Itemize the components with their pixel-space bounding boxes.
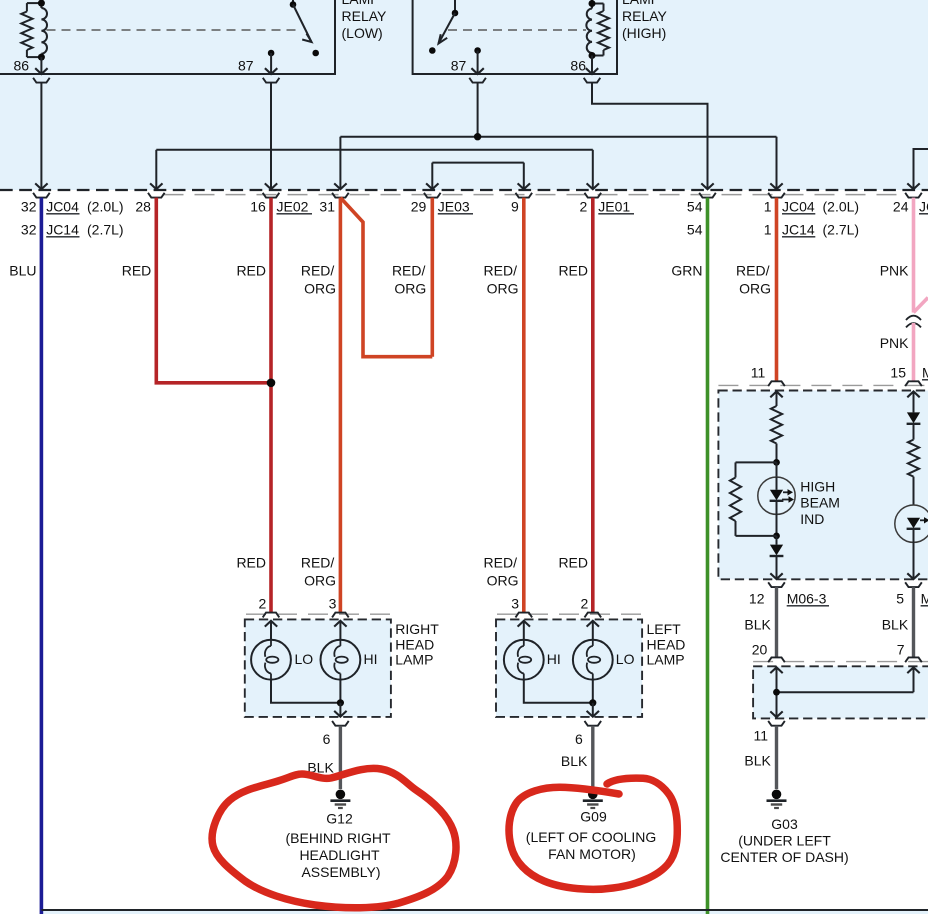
wire jumper bus 29 to 9: [432, 162, 524, 164]
right headlamp pin 6 cup: [332, 721, 349, 726]
wire LO bulb to common: [271, 680, 340, 703]
svg-text:9: 9: [511, 199, 519, 215]
right headlamp pin 3 cup: [332, 613, 349, 618]
wire bus (low beam feed): [156, 149, 593, 151]
left headlamp box: [496, 619, 642, 717]
svg-text:24: 24: [893, 199, 909, 215]
svg-text:ORG: ORG: [304, 573, 336, 589]
svg-text:RED: RED: [236, 555, 266, 571]
ground G09: [588, 790, 598, 800]
wire HIGH relay 86 to connector 54: [592, 83, 708, 190]
svg-text:ORG: ORG: [739, 281, 771, 297]
high beam indicator lamp circle: [758, 477, 795, 514]
LOW relay contact (arm side): [312, 50, 319, 57]
LOW relay coil bottom junction: [38, 54, 45, 61]
svg-text:1: 1: [764, 199, 772, 215]
svg-text:86: 86: [570, 57, 586, 73]
engine compartment relay module area (light blue band): [0, 0, 928, 190]
left headlamp pin 2 cup: [585, 613, 602, 618]
LOW relay coil top junction: [38, 0, 45, 7]
svg-text:32: 32: [21, 199, 37, 215]
high beam indicator LED: [776, 477, 778, 490]
svg-text:BLK: BLK: [744, 617, 771, 633]
connector cup pin 9: [516, 193, 533, 198]
junction high-beam bus: [474, 133, 481, 140]
wire resistor B to indicator B: [913, 477, 915, 505]
joint connector pin 20 cup: [768, 657, 785, 662]
cluster pin 11 entry arrow: [770, 392, 782, 398]
svg-text:(2.7L): (2.7L): [87, 222, 124, 238]
cluster connector strip: [718, 384, 928, 386]
right headlamp connector strip: [246, 613, 390, 615]
connector cup pin 16: [263, 193, 280, 198]
junction LED top: [773, 459, 780, 466]
svg-text:JC14: JC14: [46, 222, 79, 238]
wire BLK joint connector to ground: [775, 726, 778, 789]
svg-text:BLK: BLK: [744, 753, 771, 769]
HIGH relay box outline: [413, 0, 617, 74]
HIGH relay switch pivot: [452, 10, 459, 17]
svg-text:11: 11: [751, 365, 766, 381]
svg-text:2: 2: [259, 596, 267, 612]
svg-text:JC04: JC04: [782, 199, 815, 215]
svg-text:M0: M0: [922, 365, 928, 381]
right headlamp pin 6 exit arrow: [339, 703, 341, 717]
cluster pin 12 cup: [768, 582, 785, 587]
HIGH relay pin 87 exit arrow: [477, 51, 479, 75]
svg-text:31: 31: [319, 199, 335, 215]
cluster pin 5 exit arrow: [907, 573, 919, 579]
svg-text:(UNDER LEFTCENTER OF DASH): (UNDER LEFTCENTER OF DASH): [720, 833, 848, 866]
svg-text:54: 54: [687, 199, 703, 215]
joint connector pin 7 cup: [905, 657, 922, 662]
wire RED/ORG from connector 1 to cluster pin 11: [775, 198, 779, 382]
wire feed to connector 24: [914, 149, 928, 189]
svg-text:2: 2: [580, 199, 588, 215]
HIGH relay pin 86 connector cup: [584, 78, 601, 83]
wire RED/ORG from connector 29: [430, 198, 434, 357]
joint connector pin 11 exit arrow: [770, 711, 782, 717]
svg-text:16: 16: [250, 199, 266, 215]
connector cup pin 1: [768, 193, 785, 198]
connector cup pin 24: [905, 193, 922, 198]
joint connector strip: [753, 661, 928, 663]
LOW relay pin 87 exit arrow: [270, 53, 272, 74]
wire jumper drop to connector 29: [431, 163, 433, 190]
wire bus drop to connector 31: [339, 137, 341, 190]
HIGH relay coil (inductor): [586, 9, 592, 54]
svg-text:GRN: GRN: [671, 263, 702, 279]
LOW relay pin 87 connector cup: [263, 78, 280, 83]
cluster pin 15 entry arrow: [907, 392, 919, 398]
svg-text:BLK: BLK: [882, 617, 909, 633]
right headlamp pin 2 cup: [263, 613, 280, 618]
svg-text:JC04: JC04: [46, 199, 79, 215]
LOW relay contact pin 87: [268, 50, 275, 57]
right headlamp pin 2 entry arrow: [265, 621, 277, 627]
svg-text:ORG: ORG: [394, 281, 426, 297]
wire break symbol: [906, 316, 921, 320]
svg-text:ORG: ORG: [304, 281, 336, 297]
svg-text:PNK: PNK: [880, 335, 909, 351]
resistor parallel to indicator: [730, 478, 741, 522]
svg-text:86: 86: [14, 57, 30, 73]
wire splice loop 31 to 29: [340, 198, 432, 357]
connector cup pin 54: [699, 193, 716, 198]
left headlamp pin 6 exit arrow: [592, 703, 594, 717]
left headlamp pin 3 entry arrow: [518, 621, 530, 627]
wire LED B down: [913, 529, 915, 579]
left headlamp pin 6 cup: [585, 721, 602, 726]
svg-text:JE02: JE02: [277, 199, 309, 215]
LOW relay pin 86 exit arrow: [40, 57, 42, 74]
right headlamp pin 3 entry arrow: [334, 621, 346, 627]
parallel resistor branch wire bottom: [735, 521, 737, 536]
connector cup pin 29: [424, 193, 441, 198]
wire diode to resistor B: [913, 424, 915, 440]
svg-text:RED/: RED/: [484, 555, 518, 571]
svg-text:ORG: ORG: [487, 281, 519, 297]
cluster pin 5 cup: [905, 582, 922, 587]
svg-text:15: 15: [890, 365, 906, 381]
HIGH relay coil terminal stub: [591, 0, 593, 4]
HIGH relay parallel resistor: [598, 11, 609, 50]
svg-text:RIGHTHEADLAMP: RIGHTHEADLAMP: [395, 621, 439, 668]
wire HI bulb to common (left): [524, 680, 593, 703]
wire PNK lower to cluster pin 15: [912, 323, 916, 381]
svg-text:BLK: BLK: [561, 753, 588, 769]
resistor cluster channel B: [908, 440, 919, 477]
svg-text:(BEHIND RIGHTHEADLIGHTASSEMBLY: (BEHIND RIGHTHEADLIGHTASSEMBLY): [286, 830, 391, 880]
svg-text:6: 6: [575, 731, 583, 747]
wire RED/ORG from connector 9 to left headlamp HI: [522, 198, 526, 613]
svg-text:11: 11: [753, 728, 768, 744]
svg-text:1: 1: [764, 222, 772, 238]
svg-text:6: 6: [323, 731, 331, 747]
wire bus (high beam feed): [340, 136, 776, 138]
wire LOW relay 86 to connector 32: [40, 83, 42, 190]
wire to indicator: [776, 462, 778, 477]
diode channel A: [776, 536, 778, 545]
HIGH relay contact pin 87: [474, 47, 481, 54]
svg-text:20: 20: [752, 642, 768, 658]
HIGH relay contact (arm side): [429, 47, 436, 54]
svg-text:(2.0L): (2.0L): [823, 199, 860, 215]
svg-text:54: 54: [687, 222, 703, 238]
bottom module boundary line: [41, 909, 928, 911]
svg-text:RED/: RED/: [736, 263, 770, 279]
wire BLU (connector 32): [40, 198, 44, 914]
cluster pin 15 cup: [905, 381, 922, 386]
wire HIGH relay 87 down to bus: [477, 83, 479, 137]
junction LED bottom: [773, 533, 780, 540]
svg-text:JE01: JE01: [598, 199, 630, 215]
svg-text:RED/: RED/: [301, 555, 335, 571]
junction left lamp common: [589, 699, 596, 706]
svg-text:HI: HI: [547, 651, 561, 667]
svg-text:(2.7L): (2.7L): [823, 222, 860, 238]
wire BLK cluster 5 to joint connector: [912, 587, 915, 657]
svg-text:29: 29: [411, 199, 427, 215]
LED emission arrow upper: [783, 491, 788, 493]
left headlamp LO bulb: [573, 640, 613, 680]
svg-text:3: 3: [329, 596, 337, 612]
connector cup pin 2: [585, 193, 602, 198]
module boundary dashed line: [0, 189, 928, 191]
HIGH relay mechanical link (dashed): [448, 29, 586, 31]
wire PNK upper (connector 24): [912, 198, 916, 313]
svg-text:BLU: BLU: [9, 263, 36, 279]
right headlamp LO bulb: [251, 640, 291, 680]
HIGH relay pin 86 exit arrow: [591, 56, 593, 75]
LOW relay pin 86 connector cup: [33, 78, 50, 83]
svg-text:7: 7: [897, 642, 905, 658]
left headlamp pin 2 entry arrow: [587, 621, 599, 627]
indicator lamp circle B: [895, 505, 928, 542]
wire LOW relay 87 to connector 16: [270, 83, 272, 190]
instrument cluster box: [718, 391, 928, 580]
junction red wires: [267, 379, 276, 388]
svg-text:87: 87: [451, 57, 467, 73]
svg-text:2: 2: [581, 596, 589, 612]
wire LO bulb to common (left): [592, 680, 594, 703]
right headlamp box: [245, 619, 391, 717]
svg-text:RED/: RED/: [301, 263, 335, 279]
svg-text:JC14: JC14: [782, 222, 815, 238]
wire BLK cluster 12 to joint connector: [775, 587, 778, 657]
wire BLK left lamp to ground: [591, 726, 594, 789]
svg-text:LEFTHEADLAMP: LEFTHEADLAMP: [647, 621, 686, 668]
connector cup pin 32: [33, 193, 50, 198]
left headlamp pin 3 cup: [516, 613, 533, 618]
wire bus drop to connector 2: [592, 150, 594, 189]
wire RED from connector 2 to left headlamp LO: [591, 198, 595, 613]
svg-text:RED: RED: [122, 263, 152, 279]
resistor cluster channel A: [771, 406, 782, 444]
connector cup pin 31: [332, 193, 349, 198]
indicator LED B: [907, 518, 920, 528]
HIGH relay coil bottom junction: [589, 52, 596, 59]
svg-text:RED: RED: [558, 263, 588, 279]
svg-text:RED: RED: [236, 263, 266, 279]
HIGH relay coil top junction: [589, 0, 596, 7]
wire bus drop to connector 28: [155, 150, 157, 189]
cluster pin 11 cup: [768, 381, 785, 386]
wire BLK right lamp to ground: [339, 726, 342, 789]
svg-text:RED: RED: [558, 555, 588, 571]
svg-text:G03: G03: [771, 816, 798, 832]
parallel resistor branch wire top: [736, 461, 777, 463]
cluster pin 12 exit arrow: [776, 556, 778, 579]
connector cup pin 28: [148, 193, 165, 198]
joint connector pin 20 entry arrow: [770, 667, 782, 673]
right headlamp HI bulb: [321, 640, 361, 680]
joint connector box: [753, 666, 928, 718]
svg-text:JC: JC: [919, 199, 928, 215]
wire GRN (connector 54): [706, 198, 710, 914]
LED B emission arrow: [920, 519, 924, 521]
HIGH relay switch arm: [439, 13, 456, 44]
svg-text:PNK: PNK: [880, 263, 909, 279]
svg-text:12: 12: [749, 591, 765, 607]
LED emission arrow lower: [782, 499, 789, 501]
LOW relay parallel resistor: [21, 12, 32, 51]
joint connector internal bus: [777, 691, 914, 693]
junction joint connector: [773, 689, 780, 696]
svg-text:RED/: RED/: [484, 263, 518, 279]
wire resistor to LED junction: [776, 444, 778, 463]
svg-text:(2.0L): (2.0L): [87, 199, 124, 215]
HIGH relay switch pivot stub: [454, 0, 456, 13]
svg-text:28: 28: [135, 199, 151, 215]
LOW relay switch arm: [293, 5, 312, 43]
LOW relay box outline: [0, 0, 335, 74]
joint connector pin 11 cup: [768, 721, 785, 726]
ground G03: [772, 790, 782, 800]
svg-text:32: 32: [21, 222, 37, 238]
svg-text:G09: G09: [580, 809, 607, 825]
wire LED to lower junction: [776, 501, 778, 536]
svg-text:JE03: JE03: [438, 199, 470, 215]
LOW relay mechanical link (dashed): [47, 29, 299, 31]
HIGH relay pin 87 connector cup: [469, 78, 486, 83]
diode channel B: [907, 412, 920, 423]
wire RED from connector 16 to right headlamp LO: [269, 198, 273, 613]
LOW relay switch pivot stub: [292, 0, 294, 5]
LOW relay coil (inductor): [41, 8, 47, 54]
svg-text:RED/: RED/: [392, 263, 426, 279]
connector strip secondary dashed line: [164, 194, 904, 196]
ground G12: [336, 790, 346, 800]
LOW relay coil terminal stub: [40, 0, 42, 3]
svg-text:G12: G12: [326, 811, 353, 827]
bottom adjacent module strip: [41, 911, 928, 914]
svg-text:(LEFT OF COOLINGFAN MOTOR): (LEFT OF COOLINGFAN MOTOR): [526, 829, 656, 862]
wire HI bulb to common: [339, 680, 341, 703]
svg-text:LO: LO: [295, 651, 314, 667]
svg-text:LO: LO: [616, 651, 635, 667]
wire bus drop to connector 1: [776, 137, 778, 190]
svg-text:HI: HI: [364, 651, 378, 667]
LOW relay switch pivot: [290, 1, 297, 8]
svg-text:5: 5: [896, 591, 904, 607]
hand-drawn red circle around G12: [212, 768, 456, 907]
svg-text:3: 3: [511, 596, 519, 612]
hand-drawn red circle around G09: [509, 778, 677, 889]
svg-text:ORG: ORG: [487, 573, 519, 589]
svg-text:87: 87: [238, 57, 254, 73]
wire RED/ORG from connector 31 to right headlamp HI: [339, 198, 343, 613]
wire RED from connector 28: [156, 198, 271, 383]
left headlamp connector strip: [497, 613, 641, 615]
svg-text:M06-3: M06-3: [787, 591, 827, 607]
wire PNK splice from right: [914, 298, 928, 313]
junction right lamp common: [337, 699, 344, 706]
svg-text:M0: M0: [921, 591, 928, 607]
left headlamp HI bulb: [504, 640, 544, 680]
wire jumper drop to connector 9: [523, 163, 525, 190]
